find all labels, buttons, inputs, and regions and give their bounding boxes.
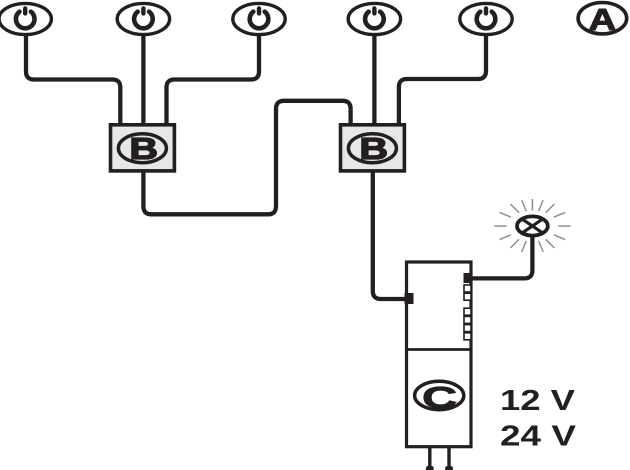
supply plug foot 2 bbox=[445, 466, 453, 470]
callout A bbox=[578, 3, 627, 37]
supply plug foot 1 bbox=[426, 466, 434, 470]
power switch 3 bbox=[233, 3, 285, 34]
wire from lamp to controller C output terminal bbox=[470, 234, 532, 278]
wire from switch 4 to box B2 middle input bbox=[372, 34, 376, 125]
wire from switch 2 to box B1 middle input bbox=[141, 34, 145, 125]
svg-text:A: A bbox=[589, 3, 617, 37]
power switch 5 bbox=[460, 3, 512, 34]
label C bbox=[415, 380, 464, 415]
controller C input connector (black, left side) bbox=[405, 293, 414, 304]
wire from box B2 output to controller C input connector bbox=[373, 171, 406, 299]
svg-text:C: C bbox=[422, 380, 457, 415]
power switch 1 bbox=[0, 3, 51, 34]
lamp bbox=[517, 216, 548, 235]
junction box B2 bbox=[341, 125, 405, 171]
controller C output terminal (black, top right) bbox=[464, 273, 473, 283]
svg-text:12 V: 12 V bbox=[500, 385, 576, 417]
svg-text:B: B bbox=[129, 132, 158, 166]
controller C supply leg 2 bbox=[447, 447, 450, 467]
terminal block squares (right side) bbox=[464, 285, 471, 340]
controller C supply leg 1 bbox=[428, 447, 431, 467]
wire from switch 1 to box B1 left input bbox=[26, 34, 120, 125]
power switch 2 bbox=[117, 3, 169, 34]
power switch 4 bbox=[348, 3, 400, 34]
svg-text:B: B bbox=[359, 132, 388, 166]
wire from switch 3 to box B1 right input bbox=[167, 34, 260, 125]
wire from switch 5 to box B2 right input bbox=[399, 34, 486, 125]
controller C body bbox=[405, 262, 472, 447]
wire from box B1 output to box B2 left input bbox=[143, 101, 350, 215]
lamp rays bbox=[494, 199, 570, 252]
svg-text:24 V: 24 V bbox=[500, 420, 577, 452]
junction box B1 bbox=[111, 125, 175, 171]
